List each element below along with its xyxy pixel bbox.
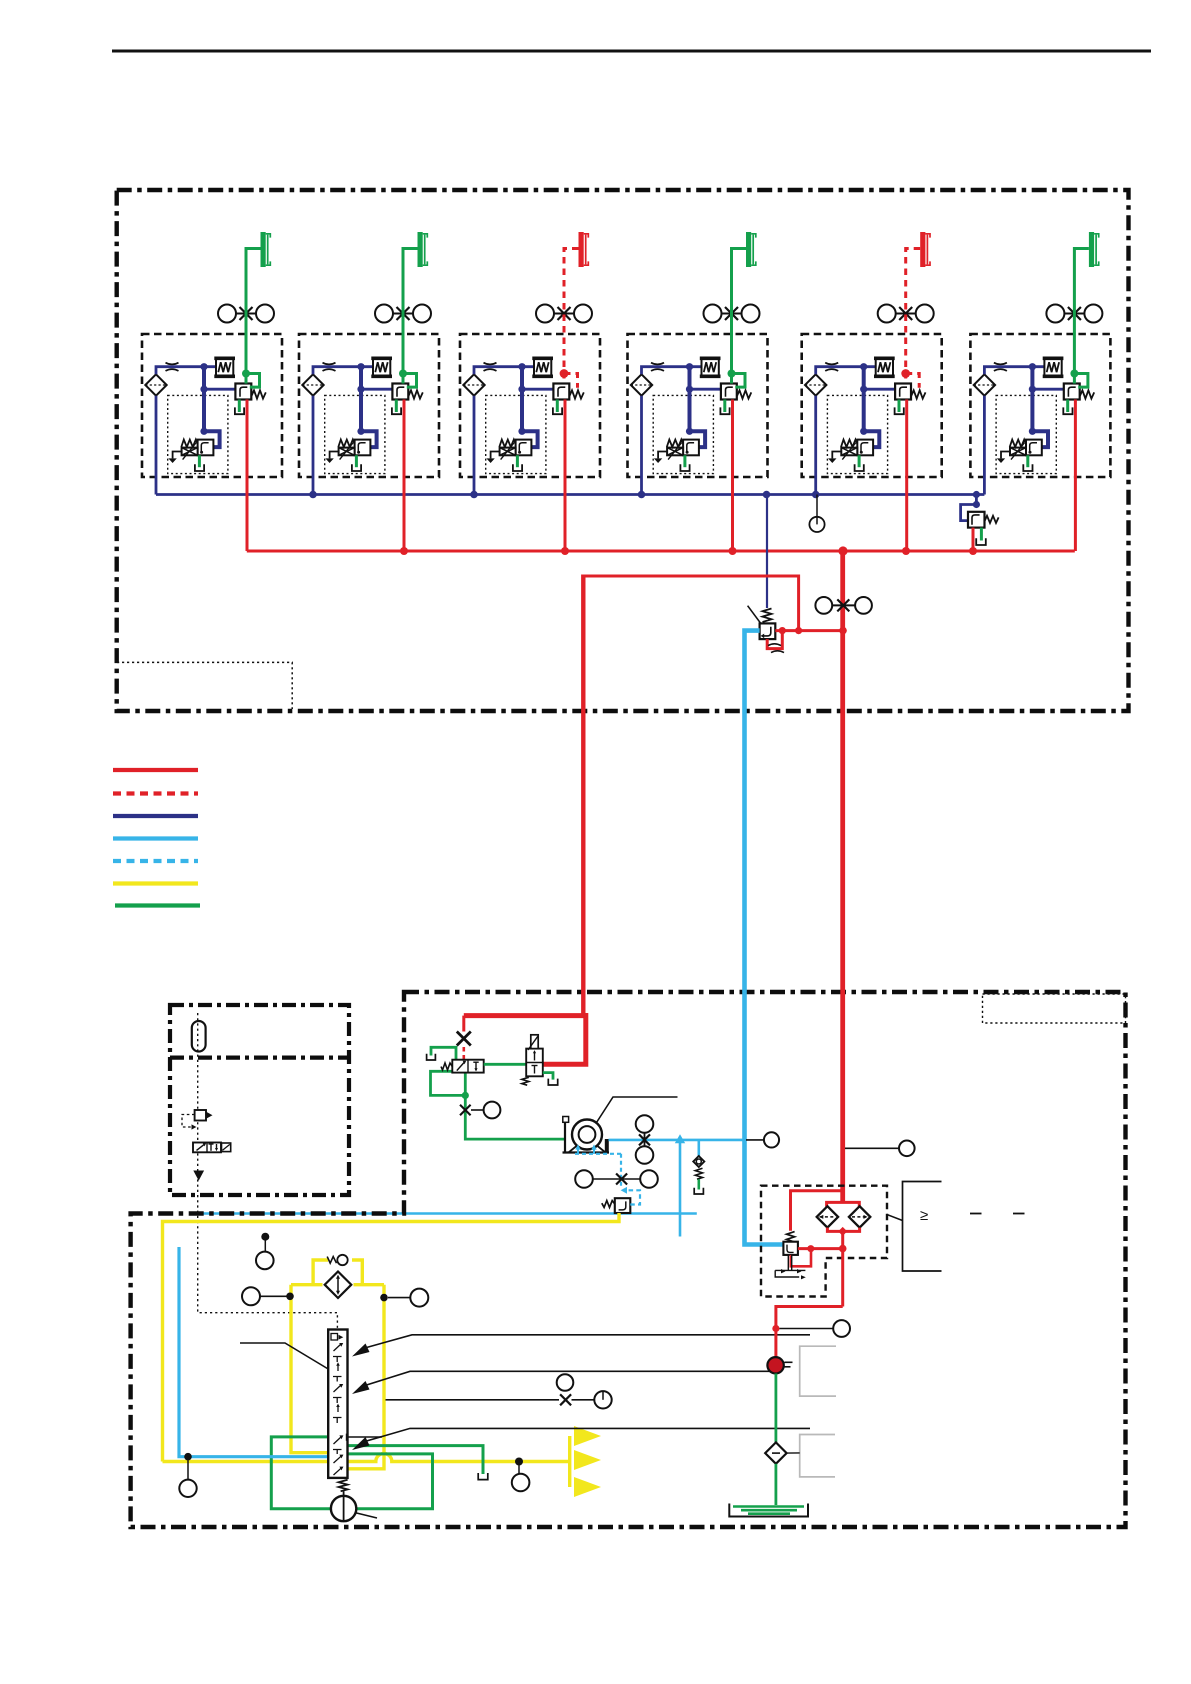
- wire red main right: [840, 551, 845, 1201]
- wire green pump suction loop: [271, 1437, 331, 1509]
- floating test point: [261, 1233, 269, 1241]
- check valve to tank branch: [697, 1140, 700, 1157]
- brake system dash-dot enclosure: [117, 190, 1129, 711]
- wire green pump return: [348, 1454, 433, 1509]
- svg-text:≥: ≥: [920, 1207, 928, 1224]
- wire green V1 to V2: [484, 1063, 527, 1066]
- pressure gauge tap: [809, 517, 824, 532]
- annotation bracket: [903, 1182, 942, 1272]
- solenoid drain symbol: [788, 1255, 791, 1271]
- case drain coupling left circle: [575, 1170, 593, 1188]
- lever valve V2: [526, 1049, 543, 1077]
- spring of check valve: [695, 1168, 702, 1179]
- manifold port tick leader: [347, 1434, 383, 1441]
- manifold leader A: [352, 1344, 370, 1357]
- annotation dotted box bottom-left: [117, 662, 292, 709]
- wire yellow suction top: [163, 1213, 620, 1462]
- accumulator capsule: [192, 1021, 206, 1052]
- spring of V1: [441, 1063, 452, 1070]
- charge relief spring: [787, 1232, 795, 1242]
- wire yellow right port branch: [348, 1285, 385, 1469]
- annotation dotted box top-right: [983, 994, 1126, 1023]
- wire charge valve drain to return bus: [972, 528, 975, 551]
- gear pump mount: [563, 1122, 610, 1153]
- wire red cross header: [464, 1013, 586, 1064]
- return check diamond: [765, 1442, 786, 1463]
- coupling on pump line upper circle: [636, 1115, 654, 1133]
- manifold spring: [339, 1480, 348, 1491]
- outlet arrow 1: [574, 1426, 601, 1446]
- wire brake line 4 green: [732, 249, 747, 388]
- legend line yellow: [113, 881, 198, 885]
- spring of steering relief: [602, 1201, 615, 1208]
- directional valve 3-2: [193, 1143, 221, 1153]
- brake unit 6: [970, 305, 1110, 552]
- accumulator dash-dot enclosure: [170, 1005, 349, 1195]
- coupling on pump line lower circle: [636, 1146, 654, 1164]
- brake unit 2: [299, 305, 439, 552]
- wire red to charge relief: [791, 1191, 843, 1231]
- wire cyan tank branch: [179, 1247, 328, 1457]
- tank symbol: [976, 538, 986, 545]
- brake caliper 3: [579, 232, 589, 267]
- accumulator charge valve near block 6: [961, 495, 977, 521]
- legend line navy: [113, 814, 198, 818]
- outlet arrow 3: [574, 1477, 601, 1497]
- quick coupling mid left circle: [815, 597, 832, 614]
- spring of charge valve: [985, 516, 999, 523]
- manifold leader D: [352, 1437, 370, 1450]
- tank symbol: [548, 1079, 557, 1085]
- wire brake line 6 green: [1074, 249, 1089, 388]
- feed pump circle: [331, 1496, 356, 1521]
- wire brake line 1 green: [246, 249, 261, 388]
- wire red main left: [581, 575, 585, 1016]
- tank symbol: [427, 1054, 436, 1060]
- wire cyan branch down: [679, 1140, 682, 1237]
- wire red riser to lower circuit: [583, 576, 798, 631]
- filter diamond right: [849, 1206, 870, 1227]
- wire red relief bypass: [791, 1250, 811, 1266]
- wire brake line 3 red pilot dashed: [564, 249, 579, 388]
- pilot dashed cyan loop: [626, 1190, 640, 1204]
- gear pump: [572, 1120, 602, 1150]
- tank symbol: [478, 1473, 488, 1480]
- brake caliper 2: [418, 232, 428, 267]
- wire yellow check bypass loop: [313, 1260, 362, 1285]
- wire valve drain loop: [767, 631, 782, 649]
- vent arcs: [768, 644, 781, 646]
- wire red filter bottom loop: [827, 1228, 859, 1232]
- tank symbol: [694, 1188, 703, 1194]
- brake caliper 4: [746, 232, 756, 267]
- parking brake valve V1: [452, 1060, 483, 1073]
- brake unit 5: [802, 305, 942, 552]
- top horizontal rule: [112, 50, 1151, 53]
- annotation gray box 1: [800, 1346, 836, 1396]
- node red bus junctions: [400, 547, 408, 555]
- brake caliper 5: [920, 232, 930, 267]
- wire charge valve to tank: [980, 528, 983, 541]
- wire green check drain: [697, 1179, 700, 1189]
- wire navy pilot to park brake valve: [766, 495, 768, 609]
- wire green valve outlet: [465, 1073, 565, 1140]
- yellow outlet bracket stem: [568, 1436, 571, 1487]
- wire yellow long bottom with hop: [163, 1454, 570, 1462]
- flow control diamond: [325, 1272, 352, 1299]
- quick coupling mid right circle: [855, 597, 872, 614]
- legend line cyan dashed: [113, 859, 198, 863]
- annotation gray box 2: [800, 1435, 835, 1477]
- port circle on cyan main: [746, 1139, 764, 1141]
- case drain coupling right circle: [640, 1170, 658, 1188]
- brake unit 4: [628, 305, 768, 552]
- pressure switch: [195, 1110, 206, 1121]
- wire cyan main from park valve: [745, 631, 784, 1245]
- filter unit dashed enclosure: [761, 1186, 887, 1297]
- filter diamond left: [817, 1206, 838, 1227]
- valve actuator box: [222, 1143, 231, 1152]
- brake unit 1: [142, 305, 282, 552]
- steering relief valve: [615, 1198, 631, 1213]
- outlet arrow 2: [574, 1450, 601, 1470]
- node on yellow bottom: [515, 1458, 523, 1466]
- park brake relief valve body: [760, 623, 776, 639]
- wire green to reservoir: [775, 1464, 778, 1505]
- plugged port X: [457, 1032, 471, 1046]
- reservoir: [729, 1504, 808, 1517]
- drain arrow: [193, 1171, 204, 1181]
- park brake relief valve spring: [763, 609, 772, 623]
- wire green return to tank: [775, 1374, 778, 1444]
- wire brake line 2 green: [403, 249, 418, 388]
- legend line green: [115, 903, 200, 907]
- test point X: [460, 1105, 471, 1116]
- pilot dotted line: [198, 1013, 338, 1330]
- return bus red: [247, 550, 1075, 553]
- brake unit 3: [460, 305, 600, 552]
- port circle on red main: [845, 1147, 899, 1149]
- wire red stub to plugged port: [462, 1016, 465, 1032]
- node bus junctions: [309, 491, 317, 499]
- manifold leader B: [352, 1381, 370, 1394]
- wire yellow flow control line: [291, 1283, 384, 1286]
- wire green valve bypass loop: [431, 1071, 466, 1095]
- wire red relief outlet: [798, 1247, 843, 1250]
- bypass check valve: [327, 1257, 336, 1264]
- brake caliper 1: [261, 232, 271, 267]
- wire green tank stub: [348, 1446, 484, 1474]
- wire red distribution: [775, 629, 843, 632]
- legend line cyan: [113, 836, 198, 840]
- wire red filter top loop: [827, 1202, 860, 1206]
- adjuster arrow: [748, 606, 766, 630]
- pressure switch ball: [767, 1357, 783, 1373]
- wire green V2 drain: [543, 1073, 553, 1080]
- divider dash-dot: [170, 1055, 349, 1059]
- manifold left leader: [240, 1343, 328, 1369]
- power unit dash-dot enclosure: [131, 992, 1126, 1527]
- wire cyan pump outlet: [609, 1139, 745, 1142]
- wire yellow left port branch: [291, 1285, 328, 1453]
- wire red pilot dashed to valve: [462, 1047, 465, 1060]
- wire red down from filters: [841, 1231, 844, 1306]
- brake caliper 6: [1089, 232, 1099, 267]
- parking valve green tank loop: [431, 1047, 456, 1059]
- pilot dashed cyan from pump case: [575, 1154, 621, 1187]
- legend line red dashed: [113, 791, 198, 795]
- legend line red solid: [113, 768, 198, 772]
- charge relief valve body: [783, 1242, 798, 1255]
- manifold valve stack: [328, 1330, 347, 1478]
- supply bus navy: [156, 493, 984, 496]
- drive shaft: [597, 1097, 678, 1123]
- wire red to pressure switch: [776, 1307, 843, 1358]
- wire brake line 5 red pilot dashed: [906, 249, 921, 388]
- spring of V2: [522, 1077, 529, 1085]
- wire cyan steering return under border: [195, 1212, 697, 1215]
- manifold gauge line: [386, 1399, 560, 1401]
- lever actuator: [531, 1035, 538, 1049]
